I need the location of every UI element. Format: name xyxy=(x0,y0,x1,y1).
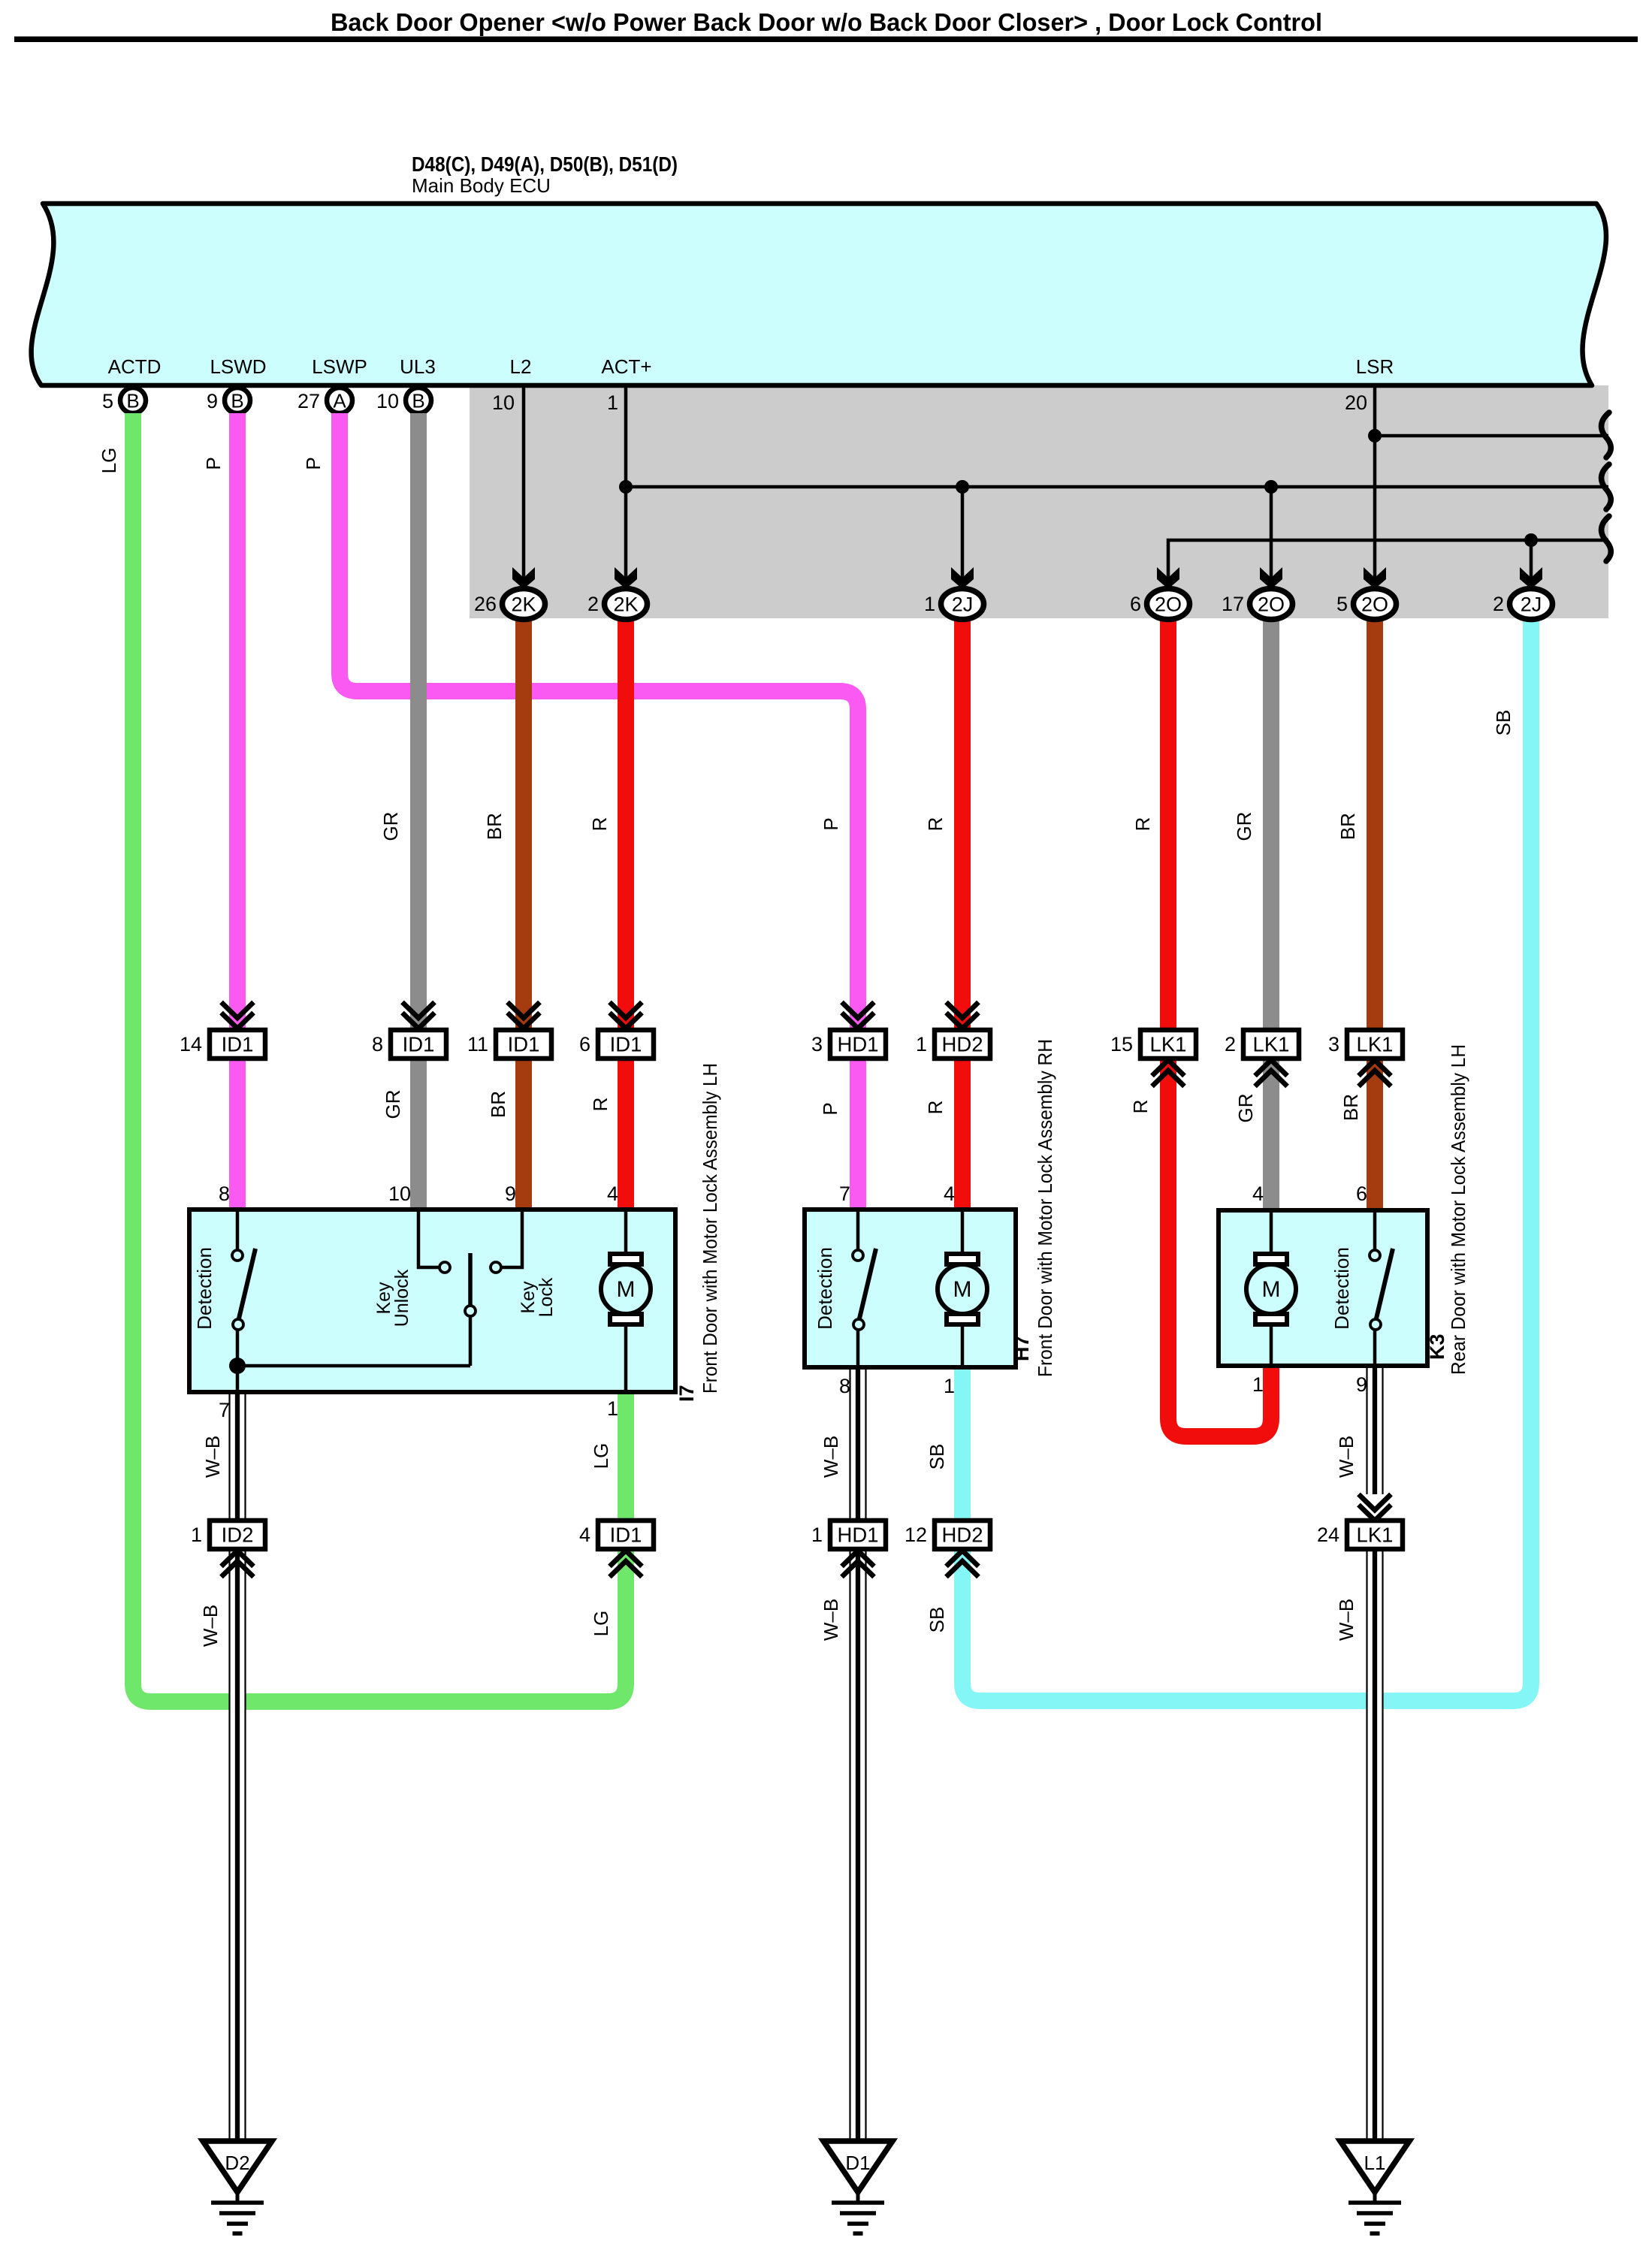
wire R 2J1 xyxy=(954,618,971,1031)
connector 2J pin 2 xyxy=(1510,589,1553,620)
svg-text:H7: H7 xyxy=(1010,1335,1033,1361)
motor M H7 xyxy=(947,1254,978,1264)
wire 2J1 drop xyxy=(961,487,965,578)
svg-text:3: 3 xyxy=(811,1033,823,1056)
ECU pin 9 connector B xyxy=(225,388,250,413)
wire BR into I7 pin9 xyxy=(515,1058,532,1211)
svg-text:ID1: ID1 xyxy=(508,1033,540,1056)
svg-text:LK1: LK1 xyxy=(1150,1033,1187,1056)
svg-text:M: M xyxy=(953,1277,972,1302)
svg-text:R: R xyxy=(924,1101,947,1115)
K3 motor lead top xyxy=(1270,1213,1273,1253)
svg-text:2J: 2J xyxy=(1521,593,1542,616)
I7 pin 8 lead xyxy=(236,1212,240,1250)
svg-text:1: 1 xyxy=(916,1033,927,1056)
svg-text:M: M xyxy=(1262,1277,1281,1302)
svg-text:W–B: W–B xyxy=(820,1599,842,1641)
rear door motor lock assembly LH box K3 xyxy=(1219,1210,1427,1366)
wire W-B ID2 to ground D2 xyxy=(230,1548,246,2141)
front door motor lock assembly LH box I7 xyxy=(189,1210,675,1392)
svg-text:LK1: LK1 xyxy=(1253,1033,1290,1056)
H7 detection contact b xyxy=(853,1319,864,1330)
svg-text:8: 8 xyxy=(839,1375,850,1397)
motor M I7 xyxy=(610,1254,642,1264)
connector LK1 pin 3 xyxy=(1347,1030,1403,1059)
connector HD1 pin 3 xyxy=(842,1002,874,1018)
svg-text:ACT+: ACT+ xyxy=(601,355,651,378)
svg-text:LSWP: LSWP xyxy=(312,355,367,378)
H7 detection blade xyxy=(859,1249,876,1318)
node 2J2 xyxy=(1524,533,1538,547)
I7 key unlock contact xyxy=(439,1262,450,1273)
I7 detection switch contact b xyxy=(233,1319,243,1330)
svg-text:6: 6 xyxy=(1356,1182,1367,1205)
svg-text:4: 4 xyxy=(944,1182,955,1205)
svg-text:6: 6 xyxy=(1130,593,1141,615)
svg-text:LG: LG xyxy=(98,448,120,474)
svg-text:R: R xyxy=(1129,1100,1152,1114)
svg-text:ID1: ID1 xyxy=(403,1033,435,1056)
connector 2K pin 2 xyxy=(605,589,648,620)
ECU pin 27 connector A xyxy=(327,388,352,413)
svg-text:P: P xyxy=(302,457,325,470)
wire SB 2J2 elbow xyxy=(962,618,1531,1701)
svg-text:LSWD: LSWD xyxy=(210,355,266,378)
I7 key switch pivot xyxy=(465,1306,476,1316)
connector 2O pin 6 xyxy=(1147,589,1190,620)
svg-text:26: 26 xyxy=(474,593,497,615)
svg-text:Rear Door with Motor Lock Asse: Rear Door with Motor Lock Assembly LH xyxy=(1447,1044,1469,1375)
connector HD2 pin 1 xyxy=(947,1002,979,1018)
I7 key lock lead xyxy=(501,1212,522,1267)
motor M K3 xyxy=(1255,1254,1287,1264)
I7 key blade riser xyxy=(469,1316,473,1366)
node LSR branch xyxy=(1368,429,1382,442)
ground L1 xyxy=(1340,2141,1409,2192)
svg-text:LG: LG xyxy=(590,1443,612,1469)
wire P into I7 pin8 xyxy=(229,1058,246,1211)
svg-text:8: 8 xyxy=(219,1182,230,1205)
svg-text:R: R xyxy=(924,817,947,832)
svg-text:Lock: Lock xyxy=(536,1277,557,1317)
H7 motor lead top xyxy=(961,1212,965,1253)
wire W-B H7 pin8 to HD1 xyxy=(850,1370,866,1522)
K3 detection blade xyxy=(1376,1249,1393,1318)
svg-text:4: 4 xyxy=(1252,1182,1264,1205)
svg-text:1: 1 xyxy=(607,1397,618,1420)
svg-text:10: 10 xyxy=(388,1182,411,1205)
svg-text:R: R xyxy=(589,1098,612,1112)
wire LG I7 pin1 to ID1-4 xyxy=(618,1394,634,1522)
shield continuation mark 3 xyxy=(1602,516,1611,561)
svg-text:BR: BR xyxy=(1336,813,1359,840)
wire P into H7 pin7 xyxy=(850,1058,866,1211)
svg-text:HD2: HD2 xyxy=(941,1033,983,1056)
svg-text:K3: K3 xyxy=(1426,1333,1448,1360)
svg-text:ACTD: ACTD xyxy=(108,355,162,378)
arrow ACT+ xyxy=(615,567,637,589)
wire lower branch xyxy=(1168,540,1608,578)
svg-text:Detection: Detection xyxy=(1330,1247,1353,1330)
svg-text:R: R xyxy=(1131,817,1154,832)
wire GR into K3 pin4 xyxy=(1263,1058,1279,1211)
svg-text:2: 2 xyxy=(1225,1033,1236,1056)
svg-text:GR: GR xyxy=(379,812,402,841)
connector ID2 pin 1 lower xyxy=(210,1521,265,1549)
front door motor lock assembly RH box H7 xyxy=(805,1210,1016,1367)
svg-text:P: P xyxy=(819,1102,841,1115)
svg-text:8: 8 xyxy=(372,1033,383,1056)
wire SB H7 pin1 to HD2-12 xyxy=(954,1370,971,1522)
arrow 2J1 xyxy=(951,567,974,589)
svg-text:5: 5 xyxy=(1336,593,1348,615)
wire R into H7 pin4 xyxy=(954,1058,971,1211)
connector LK1 pin 15 xyxy=(1140,1030,1196,1059)
connector ID1 pin 8 xyxy=(403,1002,435,1018)
shield continuation mark 1 xyxy=(1602,412,1611,458)
shield continuation mark 2 xyxy=(1602,464,1611,509)
svg-text:1: 1 xyxy=(924,593,935,615)
I7 node common xyxy=(229,1358,246,1374)
svg-text:2J: 2J xyxy=(952,593,974,616)
svg-text:P: P xyxy=(202,457,225,470)
arrow 2J2 xyxy=(1520,567,1542,589)
svg-text:LSR: LSR xyxy=(1356,355,1394,378)
svg-text:B: B xyxy=(231,390,243,412)
wire P LSWP elbow xyxy=(340,413,858,1031)
node 2O17 xyxy=(1264,480,1278,494)
svg-text:27: 27 xyxy=(297,390,320,412)
wire BR into K3 pin6 xyxy=(1367,1058,1383,1211)
svg-text:2O: 2O xyxy=(1155,593,1182,616)
svg-text:Front Door with Motor Lock Ass: Front Door with Motor Lock Assembly LH xyxy=(699,1063,721,1394)
svg-text:W–B: W–B xyxy=(1335,1436,1358,1478)
connector HD1 pin 1 lower xyxy=(830,1521,886,1549)
connector 2J pin 1 xyxy=(941,589,984,620)
connector LK1 pin 2 xyxy=(1243,1030,1299,1059)
svg-text:1: 1 xyxy=(191,1524,202,1546)
svg-text:UL3: UL3 xyxy=(400,355,436,378)
K3 detection contact a xyxy=(1370,1250,1380,1261)
svg-text:L1: L1 xyxy=(1364,2152,1386,2174)
svg-text:3: 3 xyxy=(1328,1033,1339,1056)
svg-text:LG: LG xyxy=(590,1611,612,1637)
svg-text:1: 1 xyxy=(607,391,618,414)
K3 motor lead bottom xyxy=(1270,1325,1273,1364)
svg-text:1: 1 xyxy=(1252,1373,1264,1396)
svg-text:Main Body ECU: Main Body ECU xyxy=(412,174,551,197)
wire R ACT+ xyxy=(618,618,634,1031)
svg-text:LK1: LK1 xyxy=(1357,1033,1394,1056)
H7 detection contact a xyxy=(853,1250,863,1261)
connector HD2 pin 12 lower xyxy=(935,1521,990,1549)
Main Body ECU box D48 xyxy=(32,204,1606,385)
I7 motor lead bottom xyxy=(624,1325,628,1391)
svg-text:HD1: HD1 xyxy=(837,1033,878,1056)
wire GR into I7 pin10 xyxy=(410,1058,427,1211)
svg-text:BR: BR xyxy=(1339,1094,1362,1121)
svg-text:12: 12 xyxy=(905,1524,927,1546)
wire BR L2 xyxy=(515,618,532,1031)
wire GR 2O17 xyxy=(1263,618,1279,1031)
wire GR UL3 xyxy=(410,413,427,1031)
svg-text:ID1: ID1 xyxy=(222,1033,254,1056)
svg-text:L2: L2 xyxy=(510,355,532,378)
arrow 2O6 xyxy=(1157,567,1179,589)
svg-text:2K: 2K xyxy=(613,593,638,616)
svg-text:Front Door with Motor Lock Ass: Front Door with Motor Lock Assembly RH xyxy=(1034,1039,1056,1377)
svg-text:2K: 2K xyxy=(511,593,536,616)
H7 motor lead bottom xyxy=(961,1325,965,1366)
svg-text:17: 17 xyxy=(1222,593,1244,615)
svg-text:BR: BR xyxy=(483,813,506,840)
svg-text:ID1: ID1 xyxy=(610,1033,642,1056)
wire BR 2O5 xyxy=(1367,618,1383,1031)
svg-text:SB: SB xyxy=(1492,710,1515,736)
ECU pin 10 connector B xyxy=(406,388,431,413)
svg-text:W–B: W–B xyxy=(201,1436,224,1478)
wire L2 drop xyxy=(522,388,526,578)
I7 key lock contact xyxy=(491,1262,501,1273)
svg-text:24: 24 xyxy=(1317,1524,1339,1546)
svg-text:B: B xyxy=(126,390,139,412)
H7 detection lead pin8 xyxy=(856,1330,860,1366)
wire ACT+ branch xyxy=(626,485,1608,489)
wire LSR branch xyxy=(1375,434,1608,438)
I7 motor lead top xyxy=(624,1212,628,1253)
wire W-B HD1 to ground D1 xyxy=(850,1548,866,2141)
svg-text:SB: SB xyxy=(926,1607,948,1633)
wire LSR drop xyxy=(1373,388,1377,578)
svg-text:LK1: LK1 xyxy=(1357,1524,1394,1547)
svg-text:SB: SB xyxy=(926,1444,948,1470)
I7 detection lead to node xyxy=(236,1330,240,1366)
H7 pin 7 lead xyxy=(856,1212,860,1250)
svg-text:ID1: ID1 xyxy=(610,1524,642,1547)
svg-text:M: M xyxy=(617,1277,636,1302)
wire P LSWD xyxy=(229,413,246,1031)
wire R into I7 pin4 xyxy=(618,1058,634,1211)
svg-text:9: 9 xyxy=(505,1182,516,1205)
svg-text:I7: I7 xyxy=(675,1385,698,1402)
svg-text:10: 10 xyxy=(376,390,399,412)
svg-text:Detection: Detection xyxy=(814,1247,836,1330)
connector 2O pin 17 xyxy=(1250,589,1293,620)
svg-text:10: 10 xyxy=(492,391,515,414)
svg-text:Back Door Opener <w/o Power Ba: Back Door Opener <w/o Power Back Door w/… xyxy=(331,8,1322,36)
I7 key blade xyxy=(468,1253,473,1306)
wire W-B LK1-24 to ground L1 xyxy=(1367,1548,1383,2141)
node 2J1 xyxy=(956,480,969,494)
I7 detection switch blade xyxy=(239,1249,255,1318)
svg-text:7: 7 xyxy=(219,1399,230,1421)
svg-text:D2: D2 xyxy=(225,2152,249,2174)
svg-text:HD1: HD1 xyxy=(837,1524,878,1547)
arrow LSR xyxy=(1364,567,1386,589)
svg-text:15: 15 xyxy=(1110,1033,1133,1056)
I7 common to pin7 xyxy=(236,1366,240,1391)
svg-text:6: 6 xyxy=(579,1033,590,1056)
svg-text:D1: D1 xyxy=(845,2152,870,2174)
K3 detection contact b xyxy=(1370,1319,1381,1330)
svg-text:R: R xyxy=(588,817,611,832)
svg-text:HD2: HD2 xyxy=(941,1524,983,1547)
svg-text:5: 5 xyxy=(102,390,113,412)
wire ACT+ drop xyxy=(624,388,628,578)
K3 detection lead pin9 xyxy=(1373,1330,1377,1364)
connector 2O pin 5 xyxy=(1354,589,1397,620)
node ACT+ branch xyxy=(619,480,633,494)
wire W-B I7 pin7 to ID2 xyxy=(230,1394,246,1522)
connector ID1 pin 11 xyxy=(508,1002,540,1018)
svg-text:W–B: W–B xyxy=(1335,1599,1358,1641)
svg-text:W–B: W–B xyxy=(820,1436,842,1478)
arrow 2O17 xyxy=(1260,567,1282,589)
wire 2J2 drop xyxy=(1530,540,1533,578)
svg-text:GR: GR xyxy=(382,1090,404,1119)
ground D2 xyxy=(203,2141,272,2192)
svg-text:4: 4 xyxy=(579,1524,590,1546)
svg-text:P: P xyxy=(820,817,842,830)
K3 pin 6 lead xyxy=(1373,1213,1377,1250)
svg-text:D48(C), D49(A), D50(B), D51(D): D48(C), D49(A), D50(B), D51(D) xyxy=(412,153,678,176)
ECU pin 5 connector B xyxy=(120,388,146,413)
connector 2K pin 26 xyxy=(503,589,545,620)
svg-text:14: 14 xyxy=(180,1033,202,1056)
svg-text:9: 9 xyxy=(1356,1373,1367,1396)
svg-text:GR: GR xyxy=(1233,812,1255,841)
svg-text:2: 2 xyxy=(587,593,599,615)
wire R 2O6 xyxy=(1160,618,1176,1031)
svg-text:Unlock: Unlock xyxy=(391,1269,412,1327)
svg-text:11: 11 xyxy=(467,1033,488,1056)
svg-text:9: 9 xyxy=(207,390,218,412)
svg-text:Detection: Detection xyxy=(193,1247,216,1330)
ground D1 xyxy=(823,2141,892,2192)
arrow L2 xyxy=(512,567,535,589)
I7 detection switch contact a xyxy=(232,1250,243,1261)
connector ID1 pin 4 lower xyxy=(598,1521,654,1549)
svg-text:BR: BR xyxy=(487,1091,509,1118)
svg-text:ID2: ID2 xyxy=(222,1524,254,1547)
wire R LK1-15 to K3 pin1 xyxy=(1168,1058,1271,1436)
svg-text:2O: 2O xyxy=(1258,593,1285,616)
wire LG ACTD xyxy=(133,413,626,1702)
svg-text:20: 20 xyxy=(1345,391,1367,414)
svg-text:B: B xyxy=(412,390,424,412)
svg-text:W–B: W–B xyxy=(199,1605,222,1647)
title rule xyxy=(14,37,1638,43)
connector ID1 pin 14 xyxy=(222,1002,254,1018)
wire W-B K3 pin9 to LK1-24 xyxy=(1367,1368,1383,1494)
svg-text:7: 7 xyxy=(839,1182,850,1205)
svg-text:4: 4 xyxy=(607,1182,618,1205)
svg-text:1: 1 xyxy=(944,1375,955,1397)
connector ID1 pin 6 xyxy=(610,1002,642,1018)
connector LK1 pin 24 lower xyxy=(1359,1494,1391,1510)
shield region xyxy=(470,385,1608,618)
svg-text:1: 1 xyxy=(811,1524,823,1546)
svg-text:2: 2 xyxy=(1493,593,1504,615)
I7 key unlock lead xyxy=(418,1212,439,1267)
svg-text:GR: GR xyxy=(1234,1094,1257,1123)
svg-text:2O: 2O xyxy=(1361,593,1388,616)
I7 common horizontal xyxy=(237,1364,470,1368)
svg-text:A: A xyxy=(333,390,346,412)
wire 2O17 drop xyxy=(1270,487,1273,578)
